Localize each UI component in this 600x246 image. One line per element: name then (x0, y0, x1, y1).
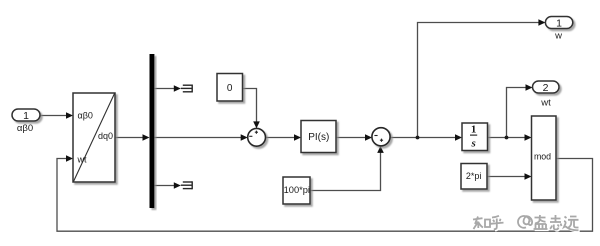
svg-text:s: s (470, 138, 475, 150)
svg-text:w: w (554, 31, 562, 42)
svg-text:1: 1 (556, 17, 562, 29)
svg-text:1: 1 (23, 110, 29, 122)
svg-text:αβ0: αβ0 (17, 123, 33, 134)
svg-text:PI(s): PI(s) (308, 132, 329, 143)
svg-text:wt: wt (540, 97, 551, 108)
svg-text:2*pi: 2*pi (466, 171, 482, 181)
svg-text:αβ0: αβ0 (78, 110, 93, 120)
svg-text:wt: wt (77, 155, 87, 165)
svg-text:1: 1 (471, 124, 477, 136)
svg-text:100*pi: 100*pi (284, 185, 310, 195)
svg-text:dq0: dq0 (98, 131, 113, 141)
svg-text:mod: mod (534, 152, 551, 162)
svg-text:2: 2 (543, 82, 549, 94)
svg-text:0: 0 (227, 83, 233, 94)
